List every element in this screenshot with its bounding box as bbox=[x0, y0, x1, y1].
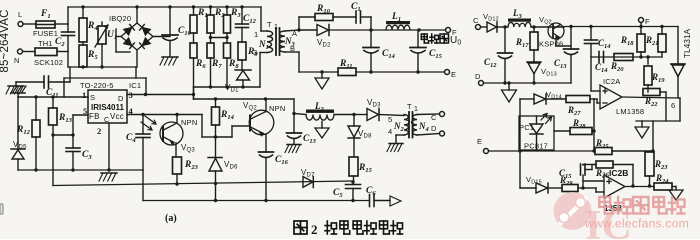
svg-text:TH1: TH1 bbox=[38, 39, 53, 48]
resistor R14 bbox=[215, 99, 217, 107]
ground hollow bbox=[321, 72, 323, 78]
ground rail lower-left bbox=[18, 169, 143, 171]
svg-text:C: C bbox=[431, 113, 437, 122]
svg-text:E: E bbox=[451, 70, 456, 79]
wire L to fuse bbox=[23, 23, 36, 25]
resistor R7 bbox=[207, 43, 214, 58]
svg-text:T: T bbox=[267, 20, 272, 29]
bridge bottom to rail bbox=[136, 50, 138, 67]
capacitor C6 bbox=[369, 195, 371, 207]
mid line under opamp bbox=[636, 120, 680, 122]
svg-text:Vcc: Vcc bbox=[110, 112, 124, 121]
svg-text:TL431A: TL431A bbox=[683, 28, 692, 58]
resistor R6 bbox=[190, 43, 197, 58]
svg-text:4: 4 bbox=[388, 127, 392, 136]
svg-text:PC817: PC817 bbox=[524, 142, 548, 151]
terminal C input bbox=[476, 25, 481, 30]
svg-text:IC1: IC1 bbox=[129, 81, 141, 90]
svg-text:5: 5 bbox=[388, 115, 392, 124]
capacitor C3 bbox=[66, 147, 80, 149]
wire R2-R3 link bbox=[211, 37, 228, 39]
svg-text:S: S bbox=[90, 93, 95, 102]
terminal F right bbox=[639, 18, 644, 23]
arrow out bbox=[390, 196, 401, 206]
left bus bbox=[67, 7, 69, 24]
terminal E right bbox=[484, 149, 489, 154]
resistor R13 bbox=[52, 97, 54, 108]
snubber R10 bbox=[298, 17, 300, 30]
caption 图2 驱动电源电路 bbox=[294, 221, 307, 234]
winding N4 bbox=[412, 115, 417, 136]
resistor R17 bbox=[533, 27, 535, 32]
feedback rail mid bbox=[53, 181, 353, 186]
ground under N2 bbox=[389, 143, 403, 145]
svg-text:www.elecfans.com: www.elecfans.com bbox=[584, 217, 689, 231]
fuse F1 FUSE1 bbox=[36, 21, 55, 28]
wire FB pin bbox=[73, 114, 88, 116]
diode VD1 bbox=[235, 69, 251, 71]
diode VD12 bbox=[487, 22, 497, 32]
bridge right to C10 bbox=[153, 36, 170, 38]
resistor R23b bbox=[645, 152, 654, 176]
resistor R28 bbox=[554, 130, 570, 132]
transistor VQ2 KSP06 bbox=[548, 26, 564, 28]
transistor VQ2 bbox=[249, 110, 274, 135]
bottom rail bbox=[142, 170, 144, 201]
inductor L3 bbox=[508, 19, 531, 22]
wire fuse to bus bbox=[55, 23, 68, 25]
svg-text:IRIS4011: IRIS4011 bbox=[91, 103, 124, 112]
E line bbox=[489, 150, 596, 152]
inductor L2 bbox=[294, 114, 306, 115]
terminal D bbox=[440, 131, 445, 136]
wire base to C13b bbox=[556, 45, 571, 47]
svg-text:F: F bbox=[645, 17, 650, 26]
svg-text:FB: FB bbox=[89, 112, 100, 121]
inductor L1 bbox=[386, 21, 410, 24]
secondary return rail bbox=[299, 71, 338, 73]
ground below C10 bbox=[162, 56, 178, 58]
svg-text:D: D bbox=[475, 72, 481, 81]
capacitor C13 bbox=[293, 114, 295, 134]
resistor R23 bbox=[173, 157, 182, 174]
svg-text:D: D bbox=[431, 124, 437, 133]
terminal C bbox=[440, 112, 445, 117]
capacitor C2 bbox=[62, 31, 75, 33]
thermistor TH1 SCK102 bbox=[35, 48, 57, 56]
ground hollow mid right bbox=[641, 121, 643, 127]
svg-text:2: 2 bbox=[97, 126, 101, 136]
resistor R15 bbox=[349, 157, 358, 176]
resistor R2 bbox=[210, 7, 212, 15]
op-chip IRIS4011 box bbox=[88, 90, 127, 123]
terminal F output bbox=[446, 28, 451, 33]
wire D pin bbox=[127, 94, 194, 96]
output IC2B bbox=[625, 186, 650, 188]
resistor R29 bbox=[562, 185, 578, 192]
svg-text:(a): (a) bbox=[165, 213, 177, 224]
capacitor C1 bbox=[355, 11, 357, 23]
transformer T1 winding N3 bbox=[279, 31, 285, 52]
capacitor C14a bbox=[590, 27, 592, 41]
svg-text:1: 1 bbox=[414, 106, 418, 113]
resistor R24 bbox=[654, 183, 672, 190]
svg-text:E: E bbox=[477, 137, 482, 146]
bridge left stub bbox=[116, 36, 121, 38]
svg-text:C: C bbox=[473, 16, 479, 25]
capacitor C12 bbox=[241, 7, 243, 24]
capacitor C14 bbox=[370, 30, 372, 48]
svg-text:N: N bbox=[14, 56, 20, 65]
resistor R5 bbox=[79, 45, 87, 67]
resistor R27 bbox=[566, 96, 590, 103]
capacitor C11 bbox=[16, 81, 44, 83]
ground hollow below D line bbox=[508, 83, 510, 90]
zener VD6 bbox=[215, 137, 217, 158]
bridge top to rail bbox=[136, 7, 138, 23]
svg-text:NPN: NPN bbox=[269, 104, 285, 113]
diode VD2 bbox=[297, 28, 300, 31]
vertical feed wire bbox=[519, 99, 521, 188]
resistor R12 bbox=[35, 97, 37, 120]
svg-text:85~264VAC: 85~264VAC bbox=[0, 9, 11, 72]
optocoupler PC817 bbox=[519, 116, 554, 150]
mid wire bbox=[591, 56, 662, 58]
resistor R22 bbox=[643, 89, 660, 96]
diode VD14 bbox=[520, 98, 534, 100]
svg-text:1: 1 bbox=[82, 90, 86, 100]
resistor R26 feedback bbox=[596, 161, 613, 168]
Vcc wire bbox=[127, 114, 202, 116]
capacitor C13b bbox=[570, 27, 572, 50]
op-amp IC2B bbox=[604, 175, 625, 198]
top rail bbox=[68, 6, 261, 8]
wire S-pin line bbox=[18, 96, 88, 98]
varistor U1 bbox=[98, 26, 106, 44]
zener VD5 bbox=[17, 97, 19, 149]
capacitor C14b bbox=[598, 52, 600, 63]
collector line bbox=[194, 98, 295, 100]
svg-text:TO-220-5: TO-220-5 bbox=[80, 81, 114, 90]
wire th1 to bus bbox=[57, 51, 68, 53]
ground below C13 bbox=[287, 144, 301, 146]
zener VD8 bbox=[353, 115, 355, 127]
wire R27 down bbox=[593, 99, 595, 151]
capacitor C15 bbox=[417, 30, 419, 48]
diode VD3 bbox=[354, 114, 367, 116]
capacitor C12b bbox=[504, 27, 506, 53]
bottom rail of input bbox=[68, 66, 136, 68]
ground top-left inverted bbox=[11, 86, 26, 93]
resistor R21 bbox=[661, 27, 663, 35]
TL431A bbox=[677, 27, 679, 65]
svg-text:IC2A: IC2A bbox=[603, 77, 620, 86]
capacitor C4 bbox=[142, 115, 144, 135]
ground hollow bottom right bbox=[669, 190, 683, 200]
resistor R11 bbox=[338, 68, 356, 76]
svg-text:NPN: NPN bbox=[181, 118, 197, 127]
resistor R8 bbox=[224, 43, 231, 58]
capacitor C10 bbox=[169, 7, 171, 35]
terminal E output bbox=[445, 70, 450, 75]
capacitor C16 bbox=[259, 151, 274, 153]
resistor R20 bbox=[614, 54, 633, 61]
svg-text:LM1358: LM1358 bbox=[616, 107, 644, 116]
resistor R25 bbox=[595, 148, 612, 155]
svg-text:D: D bbox=[118, 94, 124, 103]
wire drain column bbox=[193, 87, 195, 99]
hollow triangle under L2 bbox=[321, 122, 323, 129]
resistor R3 bbox=[226, 7, 228, 15]
svg-text:KSP06: KSP06 bbox=[539, 40, 563, 49]
wire C pin to ground bbox=[108, 123, 110, 170]
svg-text:SCK102: SCK102 bbox=[34, 58, 63, 67]
svg-text:PC1: PC1 bbox=[519, 123, 534, 132]
svg-text:L: L bbox=[18, 10, 22, 19]
resistor R18 bbox=[640, 27, 642, 35]
diode VD15 bbox=[520, 187, 536, 189]
svg-text:1: 1 bbox=[254, 30, 258, 39]
svg-text:T: T bbox=[407, 102, 412, 111]
ground pin2 bbox=[101, 172, 117, 174]
resistor R9 bbox=[238, 42, 246, 60]
wire to C13 junction bbox=[293, 99, 295, 114]
label 输出端U0 bbox=[421, 34, 428, 43]
output wire pin6 bbox=[622, 97, 680, 98]
svg-text:R26IC2B: R26IC2B bbox=[595, 168, 628, 180]
IC1 package bracket TO-220-5 bbox=[64, 77, 146, 79]
resistor R19 bbox=[647, 57, 649, 64]
input wires IC2A bbox=[590, 57, 592, 91]
diode VD7 bbox=[303, 177, 313, 188]
resistor R4 bbox=[82, 7, 84, 18]
ground left of C11 bbox=[15, 82, 17, 86]
capacitor C15b bbox=[582, 175, 584, 188]
D line bbox=[484, 82, 572, 84]
svg-text:3: 3 bbox=[253, 48, 257, 57]
output wire bbox=[299, 29, 317, 31]
zener VD13 bbox=[527, 61, 541, 63]
capacitor C5 bbox=[352, 182, 354, 185]
svg-text:2: 2 bbox=[311, 222, 318, 237]
svg-text:IBQ20: IBQ20 bbox=[109, 14, 131, 23]
resistor R1 bbox=[193, 7, 195, 15]
wire R13 to C3 bbox=[53, 134, 73, 136]
snubber line bbox=[194, 86, 261, 88]
optocoupler phototransistor VQ3 bbox=[160, 122, 183, 145]
svg-text:6: 6 bbox=[671, 101, 675, 110]
right panel top rail bbox=[564, 26, 678, 28]
drop to R23b bbox=[652, 121, 654, 151]
watermark elecfans logo and text bbox=[554, 192, 690, 240]
terminal D input bbox=[479, 81, 484, 86]
scan artifact (decorative) bbox=[0, 204, 3, 214]
wire step to base bbox=[201, 115, 203, 138]
wire N to thermistor bbox=[23, 51, 35, 53]
